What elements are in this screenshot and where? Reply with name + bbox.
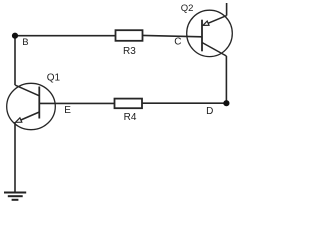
svg-text:C: C [174,37,181,48]
svg-text:Q1: Q1 [47,72,61,83]
svg-text:R4: R4 [124,112,137,123]
svg-text:D: D [206,106,213,117]
svg-text:R3: R3 [123,46,136,57]
svg-text:B: B [22,37,28,48]
svg-text:Q2: Q2 [181,3,194,14]
svg-text:E: E [64,105,71,116]
